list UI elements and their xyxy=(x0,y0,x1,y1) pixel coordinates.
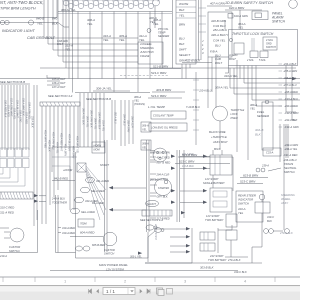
svg-text:310-A RED BLK: 310-A RED BLK xyxy=(97,112,100,130)
bottom right small boxes xyxy=(225,214,293,257)
svg-text:308-A GRN BLK: 308-A GRN BLK xyxy=(89,110,92,128)
low eng oil press box xyxy=(149,123,187,131)
svg-text:610-A GRN: 610-A GRN xyxy=(234,14,248,18)
svg-text:STEERING: STEERING xyxy=(281,193,295,197)
svg-text:309-A YEL: 309-A YEL xyxy=(93,118,96,130)
black wire note xyxy=(209,130,228,144)
svg-text:270-C BLK: 270-C BLK xyxy=(279,231,293,235)
svg-text:410-B RED: 410-B RED xyxy=(182,165,194,168)
power panel top edge xyxy=(52,147,105,172)
svg-text:30A-B: 30A-B xyxy=(255,128,263,132)
connector bus line xyxy=(57,8,172,46)
svg-text:HORN: HORN xyxy=(94,144,102,148)
svg-text:WHITE: WHITE xyxy=(179,2,188,6)
verticals right mid xyxy=(248,66,288,231)
svg-text:404-A YEL: 404-A YEL xyxy=(55,142,58,154)
throttle lock switch box xyxy=(228,30,298,66)
svg-text:YEL: YEL xyxy=(238,26,244,30)
svg-text:306-A: 306-A xyxy=(250,103,257,107)
svg-text:YEL: YEL xyxy=(250,107,256,111)
svg-text:THROTTLE LOCK SWITCH: THROTTLE LOCK SWITCH xyxy=(232,32,274,36)
svg-text:605-B RED: 605-B RED xyxy=(92,243,105,247)
svg-text:313-A YEL: 313-A YEL xyxy=(12,108,15,120)
svg-text:106-A WHT: 106-A WHT xyxy=(52,81,66,85)
svg-text:840-B: 840-B xyxy=(36,17,44,21)
svg-text:C/34 YEL: C/34 YEL xyxy=(213,39,226,43)
ground stud oval xyxy=(146,225,157,230)
label 412-B BRN xyxy=(237,174,268,184)
svg-text:354-A BLU: 354-A BLU xyxy=(122,114,125,126)
svg-text:CASTOR: CASTOR xyxy=(9,245,20,249)
oil temp sender box xyxy=(151,111,186,119)
svg-text:107-A WHT: 107-A WHT xyxy=(52,85,66,89)
parking alarm switch xyxy=(228,11,286,24)
svg-text:SWITCH: SWITCH xyxy=(272,20,286,24)
svg-text:315-A ORG: 315-A ORG xyxy=(18,110,21,123)
svg-text:4-WHEEL: 4-WHEEL xyxy=(140,42,152,46)
small box ADJ xyxy=(92,142,105,153)
svg-text:239-A: 239-A xyxy=(261,164,269,168)
main power panel note xyxy=(99,263,128,271)
label 521-B BRN xyxy=(150,65,181,76)
svg-text:TOGETHER: TOGETHER xyxy=(52,201,67,205)
svg-text:SHFT: SHFT xyxy=(179,48,187,52)
svg-text:317-A RED: 317-A RED xyxy=(24,112,27,124)
svg-text:CASTOR: CASTOR xyxy=(104,248,115,252)
svg-text:-236-A YEL: -236-A YEL xyxy=(283,76,297,80)
trans lock sensor circle xyxy=(186,86,229,151)
terminal box U1 left xyxy=(173,0,197,68)
battery two box xyxy=(203,188,232,222)
svg-text:(TRANS): (TRANS) xyxy=(134,102,145,106)
svg-text:306-JA YEL: 306-JA YEL xyxy=(61,8,76,12)
svg-text:SEL-A RED: SEL-A RED xyxy=(91,189,105,193)
svg-text:282-A BLU: 282-A BLU xyxy=(212,28,228,32)
svg-text:CRANE: CRANE xyxy=(140,54,150,58)
terminal box U2 right xyxy=(207,2,232,58)
svg-text:523-C BRN: 523-C BRN xyxy=(179,160,195,164)
svg-text:-238-A RED: -238-A RED xyxy=(284,90,298,94)
svg-text:-C32-A BRN: -C32-A BRN xyxy=(284,111,298,115)
pin column J mid xyxy=(193,72,212,145)
diagonal fan wires xyxy=(86,166,106,220)
svg-text:T-10-B BLU: T-10-B BLU xyxy=(186,105,200,109)
shunt oval xyxy=(146,200,159,206)
svg-text:STEERING: STEERING xyxy=(140,46,154,50)
svg-text:306-A: 306-A xyxy=(142,143,149,146)
svg-text:SWITCH: SWITCH xyxy=(104,252,114,256)
svg-text:406-A BRN: 406-A BRN xyxy=(63,144,66,156)
svg-text:700M: 700M xyxy=(80,222,87,226)
throttle actuator labels xyxy=(231,108,245,120)
wire bundle C center xyxy=(80,93,133,147)
svg-text:432-B BLK: 432-B BLK xyxy=(185,59,201,63)
svg-text:303-L YEL: 303-L YEL xyxy=(130,256,142,259)
svg-text:-237-A BLU: -237-A BLU xyxy=(283,83,297,87)
indicator light circuit wire 840 xyxy=(0,17,69,28)
svg-text:SWITCH: SWITCH xyxy=(238,202,250,206)
svg-text:BLK: BLK xyxy=(267,219,272,223)
svg-text:407-A BLU BLK: 407-A BLU BLK xyxy=(67,134,70,151)
svg-text:307-A YEL: 307-A YEL xyxy=(85,116,88,128)
svg-text:407-A GRN: 407-A GRN xyxy=(210,2,226,6)
svg-text:312-A GRN WHT: 312-A GRN WHT xyxy=(9,98,12,117)
svg-text:L OIL TEMP: L OIL TEMP xyxy=(148,105,166,109)
svg-text:BLU: BLU xyxy=(179,37,186,41)
svg-text:-234-A BLK: -234-A BLK xyxy=(283,62,297,66)
safety switch label top right xyxy=(225,0,297,10)
starter circle xyxy=(150,179,172,196)
bundle B labels rotated xyxy=(43,130,78,159)
svg-text:401-A WHT RED: 401-A WHT RED xyxy=(43,130,46,148)
junction arrows on bus xyxy=(109,186,146,211)
svg-text:314-A BLU WHT: 314-A BLU WHT xyxy=(15,100,18,118)
viewer toolbar xyxy=(0,286,300,300)
svg-text:343-A RED: 343-A RED xyxy=(85,199,98,203)
fuel sender xyxy=(250,100,273,150)
svg-text:310-A YEL: 310-A YEL xyxy=(224,74,238,78)
svg-text:ASSY BOLT: ASSY BOLT xyxy=(212,140,228,144)
svg-text:355-A GRN: 355-A GRN xyxy=(126,120,129,133)
svg-text:TWO BATTERY: TWO BATTERY xyxy=(208,258,227,262)
svg-text:YEL: YEL xyxy=(179,14,185,18)
svg-text:SHUNT: SHUNT xyxy=(147,202,156,206)
svg-text:284-A CLR: 284-A CLR xyxy=(156,173,170,177)
svg-text:TWO BATTERY: TWO BATTERY xyxy=(205,218,224,222)
svg-text:YEL: YEL xyxy=(238,211,244,215)
svg-text:BLK: BLK xyxy=(255,133,262,137)
svg-text:12V START: 12V START xyxy=(205,177,219,181)
grd oval bottom xyxy=(148,228,164,262)
svg-text:C33-A: C33-A xyxy=(266,151,274,155)
svg-text:210-A: 210-A xyxy=(0,254,7,258)
svg-text:SINGLE BATTERY: SINGLE BATTERY xyxy=(203,181,225,185)
mid feeder labels xyxy=(156,151,171,221)
connector strip hatched xyxy=(40,102,80,106)
svg-text:BLACK WIRE: BLACK WIRE xyxy=(209,130,226,134)
svg-text:5 SOL: 5 SOL xyxy=(259,59,266,62)
svg-text:-240-A RED: -240-A RED xyxy=(284,104,298,108)
svg-text:YEL: YEL xyxy=(87,22,93,26)
bundle C labels rotated xyxy=(81,108,133,133)
svg-text:310-A RED BLK: 310-A RED BLK xyxy=(3,100,6,118)
battery bus ladder xyxy=(177,150,184,222)
section 4-4 feeders xyxy=(47,75,66,89)
wire harness corners left xyxy=(44,0,138,93)
svg-text:306-JA YEL: 306-JA YEL xyxy=(96,87,112,91)
svg-text:ASSY: ASSY xyxy=(280,201,288,205)
right lower wire list 2 xyxy=(283,143,298,162)
fan labels xyxy=(51,163,109,205)
bus wire y78 xyxy=(0,78,240,80)
svg-text:306-A: 306-A xyxy=(134,95,141,99)
pto oil temp sender xyxy=(147,6,169,38)
svg-text:SWITCH: SWITCH xyxy=(284,170,295,174)
red wire labels left xyxy=(0,206,14,215)
battery single box xyxy=(203,155,232,186)
svg-text:-242-A BLK: -242-A BLK xyxy=(284,118,298,122)
horn button component xyxy=(252,194,274,263)
long vertical x237 xyxy=(236,60,238,152)
wires 310-A RED bottom left xyxy=(56,195,76,253)
label 432-B BLK xyxy=(182,59,212,63)
svg-text:YEL: YEL xyxy=(139,38,145,42)
note box anti-two block xyxy=(0,0,57,18)
svg-text:408-A GRN: 408-A GRN xyxy=(71,146,74,159)
svg-text:YEL: YEL xyxy=(134,99,140,103)
pins between boxes xyxy=(199,0,207,60)
svg-text:306-A: 306-A xyxy=(142,125,149,128)
mid right small boxes xyxy=(141,122,151,150)
svg-text:JUNCTION: JUNCTION xyxy=(140,50,154,54)
svg-text:310-A RED: 310-A RED xyxy=(62,231,75,235)
svg-text:NOM: NOM xyxy=(94,148,101,152)
svg-text:311-A YEL: 311-A YEL xyxy=(101,120,104,132)
svg-text:YEL: YEL xyxy=(150,20,156,24)
fanout connector xyxy=(77,163,86,172)
svg-text:318-A GRN YEL: 318-A GRN YEL xyxy=(27,102,30,120)
svg-text:12V START: 12V START xyxy=(206,214,220,218)
svg-text:PNEU: PNEU xyxy=(231,116,238,120)
svg-text:YEL: YEL xyxy=(142,129,147,132)
svg-text:BOLT: BOLT xyxy=(57,43,64,46)
svg-text:J10-A BLU: J10-A BLU xyxy=(199,89,212,93)
terminal ovals xyxy=(71,177,110,214)
svg-text:BOLT: BOLT xyxy=(229,57,236,61)
wire drops from connector row xyxy=(78,12,162,93)
svg-text:-C33-A BLU: -C33-A BLU xyxy=(284,97,298,101)
svg-text:823-B BRN: 823-B BRN xyxy=(243,174,259,178)
alternator circle xyxy=(150,148,167,162)
svg-text:40-A RED: 40-A RED xyxy=(157,178,169,182)
svg-text:24V START: 24V START xyxy=(209,254,224,258)
wires right of throttle box xyxy=(225,10,300,83)
svg-text:319-C BLK: 319-C BLK xyxy=(234,270,247,274)
svg-text:604-A RED: 604-A RED xyxy=(80,231,95,235)
svg-text:306-A YEL BLK: 306-A YEL BLK xyxy=(81,108,84,125)
right edge wire step runs xyxy=(230,66,300,121)
svg-text:SWITCH: SWITCH xyxy=(266,46,276,49)
svg-text:+DOOR: +DOOR xyxy=(63,168,72,172)
svg-text:NEUTRAL: NEUTRAL xyxy=(284,166,297,170)
svg-text:-C31-A RED: -C31-A RED xyxy=(283,153,297,157)
svg-text:SELECT: SELECT xyxy=(179,53,190,57)
svg-text:434-C RED: 434-C RED xyxy=(157,156,170,160)
svg-text:THROTTLE: THROTTLE xyxy=(231,108,245,112)
svg-text:402-A BLK: 402-A BLK xyxy=(47,140,50,152)
svg-text:523-C BRN: 523-C BRN xyxy=(151,71,167,75)
long bottom wire xyxy=(76,152,149,259)
svg-text:YEL: YEL xyxy=(103,38,109,42)
svg-text:842-B RED: 842-B RED xyxy=(54,177,68,181)
svg-text:+THROTTLE: +THROTTLE xyxy=(211,135,227,139)
svg-text:319-A BLK: 319-A BLK xyxy=(30,116,33,128)
connector strip hatched 2 xyxy=(0,192,46,203)
right mid box C33 xyxy=(263,148,281,156)
svg-text:PTO OIL: PTO OIL xyxy=(158,27,169,31)
bundle A labels rotated xyxy=(3,98,33,128)
svg-text:310-A RED: 310-A RED xyxy=(62,226,75,230)
label 403-B BRN xyxy=(148,88,185,98)
svg-text:521-B BRN: 521-B BRN xyxy=(153,65,169,69)
svg-text:420-B GRN: 420-B GRN xyxy=(211,19,227,23)
svg-text:1D-B BRN SAFETY SWITCH: 1D-B BRN SAFETY SWITCH xyxy=(225,1,273,5)
svg-text:309-A YEL: 309-A YEL xyxy=(215,86,229,90)
wire bundle left B xyxy=(42,106,78,224)
mid feeder column xyxy=(147,140,157,232)
rear steer indicator switch xyxy=(236,191,263,222)
ignition circuit xyxy=(70,219,117,256)
svg-text:311-A RED: 311-A RED xyxy=(6,105,9,117)
svg-text:SEE SECTION B-B: SEE SECTION B-B xyxy=(0,80,25,84)
svg-text:-235-A GRN: -235-A GRN xyxy=(283,69,297,73)
svg-text:TIPIR BRM LENGTH: TIPIR BRM LENGTH xyxy=(0,7,36,11)
svg-text:GEL-A RED: GEL-A RED xyxy=(81,210,95,214)
wire 823-B BRN pair left xyxy=(175,153,233,191)
svg-text:LOCK: LOCK xyxy=(231,112,238,116)
svg-text:316-A WHT BLK: 316-A WHT BLK xyxy=(21,98,24,116)
wire bundle left A xyxy=(0,83,30,85)
combination steering note xyxy=(280,193,295,205)
svg-text:1 / 1: 1 / 1 xyxy=(106,289,115,294)
trans temp connectors right xyxy=(256,162,297,174)
svg-text:WHEEL: WHEEL xyxy=(281,197,291,201)
bottom long wires xyxy=(50,253,262,271)
svg-text:270-A BLK: 270-A BLK xyxy=(227,258,241,262)
svg-text:356-A CLR: 356-A CLR xyxy=(130,116,133,128)
svg-text:403-B BRN: 403-B BRN xyxy=(156,88,172,92)
svg-text:319-C: 319-C xyxy=(267,215,274,219)
svg-text:405-A RED WHT: 405-A RED WHT xyxy=(59,133,62,152)
svg-text:341-A RED: 341-A RED xyxy=(96,179,109,183)
4-wheel steering junction box xyxy=(138,42,163,64)
svg-text:START: START xyxy=(100,163,109,167)
svg-text:2 SOL: 2 SOL xyxy=(246,59,254,62)
svg-text:BRN: BRN xyxy=(179,23,186,27)
svg-text:TEMP: TEMP xyxy=(158,31,166,35)
svg-text:SEE SECTION 4-A: SEE SECTION 4-A xyxy=(140,218,163,222)
sheet bottom ruler xyxy=(0,277,300,284)
svg-text:311-A RED: 311-A RED xyxy=(0,211,14,215)
wires above batteries xyxy=(213,148,222,188)
svg-text:SEE SECTION 4-4: SEE SECTION 4-4 xyxy=(48,94,73,98)
svg-text:TRANS: TRANS xyxy=(284,162,293,166)
bus wire y68 xyxy=(40,67,296,69)
svg-text:SENDER: SENDER xyxy=(158,34,169,38)
backup switch bottom left xyxy=(0,210,38,258)
svg-text:430-A BLK/Y: 430-A BLK/Y xyxy=(211,33,229,37)
svg-text:INDICATOR LIGHT: INDICATOR LIGHT xyxy=(2,29,35,33)
svg-text:STARTER: STARTER xyxy=(158,187,169,190)
verticals below box U2 xyxy=(208,57,216,108)
svg-text:303-B BLK: 303-B BLK xyxy=(200,266,214,270)
svg-text:310-C RED: 310-C RED xyxy=(0,206,14,210)
svg-text:NT, ANTI-TWO BLOCK,: NT, ANTI-TWO BLOCK, xyxy=(0,0,44,5)
svg-text:620 A BRN: 620 A BRN xyxy=(229,6,245,10)
battery bank 24v xyxy=(155,225,232,262)
svg-text:-246-A BLU: -246-A BLU xyxy=(283,158,297,162)
svg-text:823-B BRN: 823-B BRN xyxy=(182,153,198,157)
svg-text:YEL: YEL xyxy=(37,22,43,26)
left fuse panel boxes xyxy=(0,148,29,186)
svg-text:BOLT: BOLT xyxy=(214,148,221,151)
306 JA YEL labelled wire xyxy=(75,87,150,93)
wire labels 306-A YEL group xyxy=(65,18,246,52)
svg-text:LOW ENG OIL PRESS: LOW ENG OIL PRESS xyxy=(151,126,178,130)
svg-text:YEL: YEL xyxy=(119,38,125,42)
svg-text:YEL: YEL xyxy=(65,48,71,52)
main bus vertical pair xyxy=(105,140,108,252)
svg-text:409-A WHT YEL: 409-A WHT YEL xyxy=(75,136,78,154)
ladder arrows xyxy=(171,153,210,214)
terminal strip box xyxy=(140,210,172,222)
right edge wire list xyxy=(279,62,299,129)
trans label right of bundle xyxy=(134,95,145,106)
svg-text:352-A BLU: 352-A BLU xyxy=(113,112,116,124)
svg-text:45?-B: 45?-B xyxy=(150,179,157,182)
svg-text:SEE SECTION B-B: SEE SECTION B-B xyxy=(86,97,111,101)
svg-text:SENDER: SENDER xyxy=(257,114,269,118)
svg-text:523-C BRN: 523-C BRN xyxy=(240,180,256,184)
svg-text:COOLANT TEMP: COOLANT TEMP xyxy=(153,114,174,118)
svg-text:A GRD: A GRD xyxy=(228,53,237,57)
connector row top xyxy=(63,0,160,9)
svg-text:BLU: BLU xyxy=(215,44,222,48)
svg-text:523-C BRN: 523-C BRN xyxy=(151,94,167,98)
svg-text:105-A WHT: 105-A WHT xyxy=(52,77,66,81)
